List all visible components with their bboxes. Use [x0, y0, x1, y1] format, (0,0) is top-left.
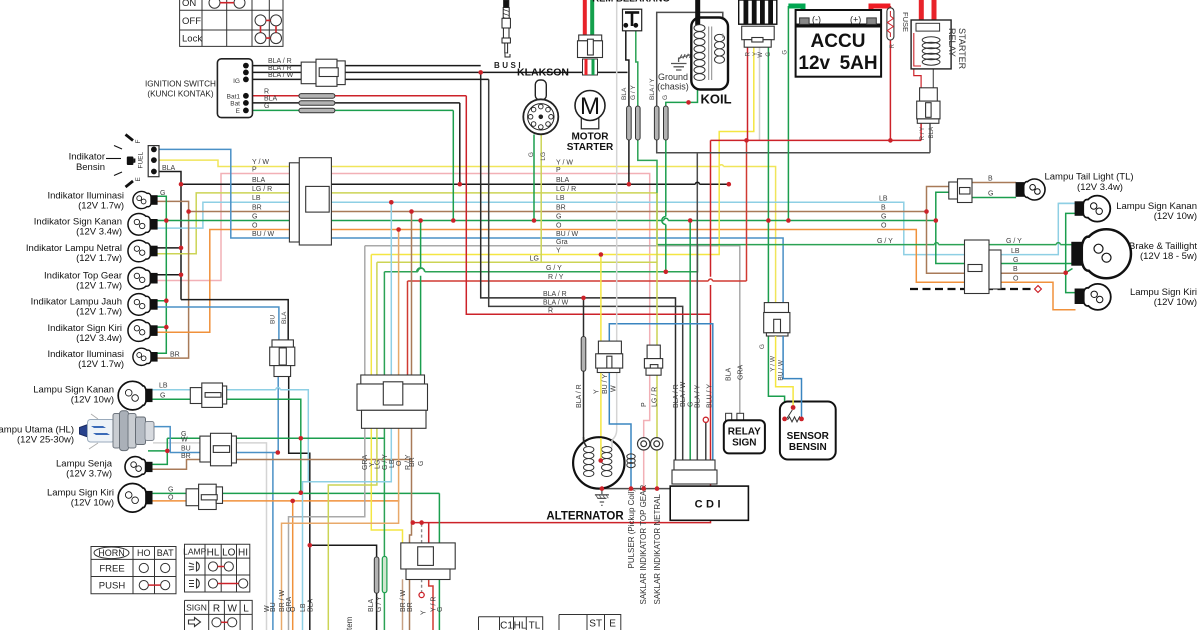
- wire W from top into alternator connector: [616, 0, 618, 341]
- junction right green net: [1063, 271, 1068, 276]
- svg-text:BLA / R: BLA / R: [576, 384, 583, 408]
- fuel gauge connector: [148, 146, 159, 177]
- junction regulator R relay feed: [744, 138, 749, 143]
- wire alternator left coil lead: [588, 475, 599, 482]
- junction G row battery: [786, 218, 791, 223]
- svg-text:G: G: [881, 214, 886, 221]
- svg-text:(12V 18 - 5w): (12V 18 - 5w): [1140, 251, 1197, 262]
- svg-text:(12V 1.7w): (12V 1.7w): [76, 307, 122, 318]
- fuel gauge F E marks and icon: [106, 135, 133, 188]
- svg-text:CDI: CDI: [695, 499, 724, 511]
- indicator lampu netral bulb: [128, 240, 157, 262]
- svg-text:G: G: [160, 393, 165, 400]
- hop arc LB lamp row over BU: [276, 388, 280, 390]
- svg-text:BLU / Y: BLU / Y: [706, 384, 713, 408]
- svg-text:BLA / W: BLA / W: [268, 72, 294, 79]
- svg-text:BLA: BLA: [621, 87, 628, 100]
- svg-text:HI: HI: [238, 547, 248, 558]
- wire Y row to regulator: [371, 47, 754, 254]
- svg-text:R: R: [890, 43, 896, 48]
- indicator sign kanan bulb: [128, 214, 157, 236]
- wire O row orange: [157, 230, 1076, 333]
- svg-text:G: G: [418, 461, 425, 466]
- indicator lamp iluminasi 1 bulb: [133, 191, 157, 208]
- junction koil BLA row: [627, 182, 632, 187]
- svg-text:BR: BR: [409, 457, 416, 467]
- CDI box: [670, 486, 748, 520]
- svg-text:ON: ON: [182, 0, 196, 9]
- svg-text:SIGN: SIGN: [186, 603, 207, 613]
- wire lampu sign kanan LB: [152, 390, 308, 482]
- svg-text:BR: BR: [556, 205, 566, 212]
- svg-text:LG / R: LG / R: [252, 186, 272, 193]
- motor starter connector: [578, 35, 603, 58]
- svg-text:W: W: [227, 603, 237, 614]
- wire BLA/W row to CDI: [489, 79, 683, 460]
- wire LG/R netral vertical: [656, 193, 658, 489]
- wire koil G capsule up to primary: [666, 87, 698, 107]
- lampu tail light bulb: [1016, 179, 1045, 200]
- wire lampu utama W: [153, 443, 267, 630]
- svg-text:BLA / Y: BLA / Y: [649, 78, 656, 100]
- wire ignition BLA/R pin1: [246, 65, 481, 67]
- svg-text:ALTERNATOR: ALTERNATOR: [546, 511, 624, 523]
- svg-text:L: L: [243, 603, 249, 614]
- table C1 HL TL: [479, 617, 543, 630]
- lampu sign kanan right bulb: [1075, 196, 1110, 222]
- svg-text:G: G: [168, 487, 173, 494]
- svg-text:(12V 1.7w): (12V 1.7w): [78, 201, 124, 212]
- svg-text:R / Y: R / Y: [548, 274, 564, 281]
- capsule bullet BLA: [299, 101, 335, 106]
- svg-text:HL: HL: [514, 621, 527, 630]
- svg-text:Lock: Lock: [182, 34, 202, 45]
- svg-text:(12V 10w): (12V 10w): [71, 395, 114, 406]
- svg-text:SIGN: SIGN: [732, 438, 756, 449]
- svg-text:STARTER: STARTER: [567, 142, 614, 153]
- relay starter connector: [917, 88, 940, 124]
- switch netral symbol: [651, 438, 663, 450]
- svg-text:Bat1: Bat1: [227, 94, 241, 101]
- svg-text:BLA: BLA: [556, 177, 570, 184]
- wire Y alternator vertical: [600, 255, 602, 461]
- junction HL G: [165, 449, 170, 454]
- wire BLA/R pulser vertical to alternator: [584, 298, 587, 447]
- capsule bottom G/Y: [382, 556, 387, 592]
- wire R/Y CDI vertical: [407, 281, 409, 384]
- wire CDI no-connect stub: [705, 422, 707, 460]
- junction dots group: [164, 70, 1068, 547]
- wire ignition R wire: [246, 95, 466, 97]
- svg-text:STARTER: STARTER: [957, 28, 967, 70]
- connector headlight: [200, 433, 237, 466]
- svg-text:(12V 3.4w): (12V 3.4w): [76, 333, 122, 344]
- wire Y/R below bottom connector: [429, 579, 433, 630]
- junction fuel BLA: [179, 182, 184, 187]
- junction BLA bottom branch: [308, 543, 313, 548]
- junction alternator bus pulser: [629, 486, 634, 491]
- wire relay starter BLA horizontal: [697, 152, 930, 154]
- indicator lamp iluminasi 2 bulb: [133, 348, 157, 365]
- junction Y row alternator: [599, 252, 604, 257]
- svg-text:O: O: [290, 606, 297, 612]
- svg-text:BU: BU: [181, 446, 191, 453]
- svg-text:G: G: [264, 103, 269, 110]
- wire Y/W row segment after hop: [724, 167, 776, 303]
- svg-text:G: G: [662, 95, 669, 100]
- svg-text:R: R: [746, 51, 752, 56]
- junction sensor pin wiper: [791, 405, 796, 410]
- wire BU below connector to BU row junction: [277, 377, 279, 453]
- svg-text:RELAY: RELAY: [728, 427, 761, 438]
- sensor wires: [776, 336, 802, 419]
- wire koil BLA/Y secondary to CDI: [657, 12, 723, 460]
- junction netral bulb: [179, 246, 184, 251]
- wire Y CDI vertical to bottom connector: [371, 255, 402, 543]
- svg-text:O: O: [1013, 275, 1019, 282]
- svg-text:Lampu Tail Light (TL): Lampu Tail Light (TL): [1044, 172, 1133, 183]
- svg-text:R / Y: R / Y: [920, 127, 926, 140]
- svg-text:O: O: [556, 223, 562, 230]
- lampu sign kiri bulb: [118, 484, 152, 513]
- relay starter: [911, 20, 951, 69]
- capsule bullet G koil: [664, 106, 669, 140]
- svg-text:Bat: Bat: [230, 101, 240, 108]
- wire Y inside alternator to centre: [600, 438, 602, 461]
- wire green stub into brake terminal: [1066, 269, 1073, 273]
- indicator top gear bulb: [128, 267, 157, 289]
- motor starter M: [575, 91, 605, 129]
- connector brake rear: [965, 240, 1002, 294]
- svg-text:P: P: [252, 167, 257, 174]
- wire BU/W lampu jauh row: [157, 307, 279, 340]
- wire G/Y CDI vertical to bottom: [383, 272, 385, 630]
- svg-text:BLA / R: BLA / R: [673, 384, 680, 408]
- connector alternator wires: [596, 341, 623, 372]
- lampu sign kiri right bulb: [1075, 284, 1111, 310]
- wire relay starter R/Y output: [920, 123, 922, 140]
- sensor bensin box: [780, 402, 836, 460]
- wire G sign kiri row down through bottom connector: [438, 493, 440, 630]
- svg-text:OFF: OFF: [182, 16, 201, 27]
- junction alternator bus P: [641, 486, 646, 491]
- svg-text:BR: BR: [170, 352, 180, 359]
- capsule bottom BLA: [374, 557, 379, 593]
- svg-text:LB: LB: [1011, 248, 1020, 255]
- wire G/Y row to brake light: [384, 245, 1071, 272]
- svg-text:tem: tem: [345, 616, 354, 630]
- svg-text:MOTOR: MOTOR: [571, 132, 609, 143]
- svg-text:LO: LO: [222, 547, 236, 558]
- svg-text:(12V 3.4w): (12V 3.4w): [1077, 182, 1123, 193]
- svg-text:G: G: [1013, 257, 1018, 264]
- junction G row bulb1: [164, 218, 169, 223]
- svg-text:12v 5AH: 12v 5AH: [798, 53, 877, 74]
- svg-text:G: G: [437, 607, 444, 612]
- svg-text:(12V 10w): (12V 10w): [1154, 211, 1197, 222]
- wire BLA below connector jog to bottom: [289, 377, 310, 630]
- wire relay starter internal red: [914, 35, 921, 88]
- wire LG/R row: [157, 193, 657, 254]
- connector ignition harness: [301, 59, 345, 86]
- svg-text:G / Y: G / Y: [1006, 238, 1022, 245]
- svg-text:BLA: BLA: [281, 311, 288, 324]
- ground symbol alternator: [595, 489, 609, 506]
- wire relay starter internal gray: [921, 64, 933, 123]
- junction fuse R relay feed: [888, 138, 893, 143]
- junction LB row CDI: [389, 200, 394, 205]
- svg-text:BLA: BLA: [307, 598, 314, 612]
- svg-text:LG: LG: [530, 255, 539, 262]
- junction jauh bulb: [164, 298, 169, 303]
- svg-text:G / Y: G / Y: [546, 265, 562, 272]
- svg-text:LAMP: LAMP: [183, 547, 206, 557]
- battery ACCU: [796, 10, 882, 77]
- svg-text:R: R: [264, 89, 269, 96]
- hop arc G/Y over G vertical right: [935, 243, 939, 245]
- wire P row pink: [157, 174, 650, 346]
- svg-text:(12V 1.7w): (12V 1.7w): [76, 280, 122, 291]
- svg-text:(chasis): (chasis): [657, 82, 689, 92]
- hop arc G row over koil G: [664, 218, 668, 220]
- junction koil green: [686, 100, 691, 105]
- svg-text:Ground: Ground: [658, 72, 688, 82]
- junction sensor pin G: [782, 417, 787, 422]
- wire alternator right coil lead: [602, 478, 607, 489]
- wire LB row: [157, 202, 1076, 254]
- svg-text:G: G: [766, 52, 772, 57]
- svg-text:BLA / W: BLA / W: [543, 300, 569, 307]
- table ST E: [559, 615, 621, 630]
- svg-text:F: F: [135, 140, 142, 144]
- wire BLA/R inside alternator to left coil: [584, 437, 587, 447]
- wire klakson LG to LG row: [540, 135, 542, 263]
- svg-text:ACCU: ACCU: [811, 31, 866, 52]
- wire lampu sign kanan G: [152, 399, 301, 438]
- svg-text:FUSE: FUSE: [901, 12, 910, 32]
- alternator assembly: [573, 437, 624, 488]
- wire BR CDI vertical to bottom connector: [410, 212, 412, 630]
- fuse: [887, 8, 894, 40]
- svg-text:M: M: [580, 93, 600, 120]
- wire lampu utama G row: [167, 437, 384, 439]
- wire G row green: [157, 196, 936, 353]
- wire ignition G wire: [246, 109, 453, 111]
- svg-text:BU / W: BU / W: [556, 231, 579, 238]
- svg-text:IGNITION SWITCH: IGNITION SWITCH: [145, 80, 216, 89]
- hop arc G/Y over CDI G: [418, 268, 425, 272]
- wire alternator common bus: [599, 488, 670, 490]
- wire lampu sign kiri O row: [152, 500, 399, 502]
- junction alternator bus 1: [600, 486, 605, 491]
- svg-text:(12V 3.4w): (12V 3.4w): [76, 227, 122, 238]
- wire battery R thick to fuse: [871, 6, 890, 20]
- svg-text:R: R: [548, 307, 553, 314]
- svg-text:P: P: [641, 402, 648, 407]
- table horn switch: [91, 547, 176, 594]
- svg-text:Y / W: Y / W: [770, 355, 777, 372]
- svg-text:G / Y: G / Y: [630, 85, 637, 100]
- svg-text:SAKLAR INDIKATOR NETRAL: SAKLAR INDIKATOR NETRAL: [653, 494, 662, 605]
- wire GRA CDI vertical and branch to bottom: [289, 246, 365, 630]
- svg-text:PUSH: PUSH: [99, 581, 126, 592]
- svg-text:SAKLAR INDIKATOR TOP GEAR: SAKLAR INDIKATOR TOP GEAR: [639, 485, 648, 605]
- junction ignition BLA row: [458, 182, 463, 187]
- capsule bullet R: [299, 94, 335, 99]
- motor starter terminal block: [583, 59, 598, 75]
- svg-text:BLA: BLA: [252, 177, 266, 184]
- junction G lamp row 2: [299, 490, 304, 495]
- hop arc Y/W row: [719, 165, 723, 167]
- wire klakson G to G row: [533, 135, 535, 221]
- junction G row CDI pin: [688, 218, 693, 223]
- wire BLA branch to capsule at bottom: [310, 545, 377, 630]
- wire R main feed row: [466, 96, 710, 314]
- connector harness main left: [289, 158, 331, 245]
- svg-text:O: O: [252, 223, 258, 230]
- connector pulser wires: [644, 345, 662, 375]
- brake and taillight bulb: [1072, 229, 1131, 278]
- svg-text:GRA: GRA: [738, 365, 745, 381]
- switch top gear symbol: [638, 438, 650, 450]
- junction G row regulator sensor: [766, 218, 771, 223]
- wire ignition G vertical: [452, 110, 454, 220]
- svg-text:LG / R: LG / R: [556, 186, 576, 193]
- svg-text:PULSER (Pickup Coil): PULSER (Pickup Coil): [627, 489, 636, 569]
- svg-text:ST: ST: [589, 619, 602, 630]
- junction G/Y koil G: [664, 270, 669, 275]
- junction O sign kiri: [290, 499, 295, 504]
- svg-text:LG: LG: [540, 152, 547, 161]
- junction ignition BLA/R pair: [478, 70, 483, 75]
- svg-text:(+): (+): [850, 15, 861, 25]
- wire tail light G output: [967, 197, 1016, 199]
- wire hop G CDI over G/Y row: [417, 268, 425, 272]
- wire W below connector into alternator: [612, 373, 617, 448]
- svg-text:G: G: [160, 190, 165, 197]
- svg-text:BLA: BLA: [929, 127, 935, 138]
- svg-text:RELAY: RELAY: [947, 28, 957, 57]
- svg-text:KOIL: KOIL: [700, 92, 731, 107]
- svg-text:HL: HL: [207, 547, 220, 558]
- wire lampu utama BU: [153, 427, 277, 630]
- junction alternator center: [598, 458, 603, 463]
- wire G CDI vertical: [420, 221, 422, 376]
- svg-text:C1: C1: [500, 621, 513, 630]
- wire LB CDI vertical and jog to bottom: [303, 202, 392, 630]
- junction O row CDI: [396, 227, 401, 232]
- svg-text:Y / W: Y / W: [556, 160, 573, 167]
- svg-text:G: G: [759, 344, 766, 349]
- junction relay sign BLA row: [727, 182, 732, 187]
- svg-text:FUEL: FUEL: [138, 152, 145, 169]
- svg-text:BR: BR: [181, 453, 191, 460]
- wire W inside alternator to right coil: [611, 440, 613, 448]
- table lamp switch: [185, 544, 250, 592]
- brake switch REM BELAKANG: [623, 9, 642, 31]
- svg-text:FREE: FREE: [99, 564, 124, 575]
- svg-text:Y: Y: [421, 610, 428, 615]
- svg-text:BU: BU: [270, 602, 277, 612]
- svg-text:BLA / R: BLA / R: [268, 65, 292, 72]
- pulser pickup coil symbol: [627, 454, 635, 468]
- junction top gear bulb: [179, 273, 184, 278]
- svg-text:G: G: [783, 50, 789, 55]
- svg-text:Gra: Gra: [556, 239, 568, 246]
- indicator sign kiri bulb: [128, 320, 157, 342]
- wire BU/W row: [154, 149, 783, 302]
- svg-text:BLA / Y: BLA / Y: [695, 384, 702, 408]
- wire BLU/Y from alternator connector up over to CDI: [609, 324, 713, 460]
- connector sign kanan left: [190, 383, 226, 407]
- connector sign kiri left: [186, 484, 222, 509]
- wire right green net sign kanan to brake and sign kiri: [1066, 213, 1076, 292]
- svg-text:LG / R: LG / R: [652, 387, 659, 407]
- horn KLAKSON: [523, 80, 558, 134]
- svg-text:R: R: [213, 603, 220, 614]
- junction G row tail: [934, 218, 939, 223]
- hop arc R/Y over R vertical: [709, 279, 713, 281]
- wire G vertical junction between lamp rows: [300, 438, 302, 492]
- svg-text:G: G: [528, 152, 535, 157]
- svg-text:Y / W: Y / W: [252, 159, 269, 166]
- svg-text:BENSIN: BENSIN: [789, 442, 827, 453]
- wire R/Y row from CDI to relay starter feed: [408, 140, 747, 281]
- connector CDI feed main: [357, 375, 428, 428]
- wire dashed rear harness line: [910, 288, 1033, 290]
- svg-text:BR: BR: [252, 205, 262, 212]
- svg-text:BLA: BLA: [162, 165, 176, 172]
- wire ignition BLA wire: [246, 102, 460, 104]
- junction red jog 2: [419, 520, 424, 525]
- svg-text:HORN: HORN: [98, 548, 125, 558]
- svg-text:(12V 1.7w): (12V 1.7w): [76, 253, 122, 264]
- wire BLA row black: [154, 172, 729, 300]
- svg-text:W: W: [758, 52, 764, 58]
- connector BU BLA small: [270, 340, 295, 377]
- svg-text:E: E: [609, 619, 616, 630]
- junction BR row CDI: [409, 209, 414, 214]
- no-connect ring bottom dashed: [419, 592, 424, 597]
- junction BLA/R pulser: [581, 296, 586, 301]
- hop arc G/Y over LB vertical far right: [1056, 243, 1060, 245]
- wire R/Y vertical to bottom connector: [412, 140, 711, 543]
- svg-text:(KUNCI KONTAK): (KUNCI KONTAK): [147, 90, 214, 99]
- wire BU/Y below connector to pulser coil: [609, 373, 631, 490]
- ignition coil KOIL: [691, 18, 728, 90]
- wire relay starter R/Y feed horizontal: [711, 139, 922, 141]
- capsule pulser BLA/R: [581, 337, 586, 372]
- wire relay sign BLA from relay starter row: [929, 123, 931, 153]
- svg-text:LB: LB: [389, 459, 396, 468]
- junction BR row indicator: [186, 209, 191, 214]
- svg-text:LB: LB: [556, 195, 565, 202]
- capsule bullet G/Y: [636, 106, 641, 140]
- indicator lampu jauh bulb: [128, 294, 157, 316]
- svg-text:BR: BR: [407, 602, 414, 612]
- wire relay starter thick red leads: [921, 0, 934, 20]
- svg-text:SENSOR: SENSOR: [787, 431, 830, 442]
- regulator rectifier fins: [739, 0, 777, 24]
- svg-text:BLA: BLA: [368, 598, 375, 612]
- svg-text:B: B: [1013, 266, 1018, 273]
- no-connect ring CDI stub: [703, 417, 708, 422]
- svg-text:LB: LB: [159, 383, 168, 390]
- ground chasis symbol: [671, 53, 692, 70]
- wire ignition BLA vertical: [459, 103, 461, 184]
- svg-text:LB: LB: [300, 603, 307, 612]
- capsule bullet BLA/Y: [654, 106, 659, 140]
